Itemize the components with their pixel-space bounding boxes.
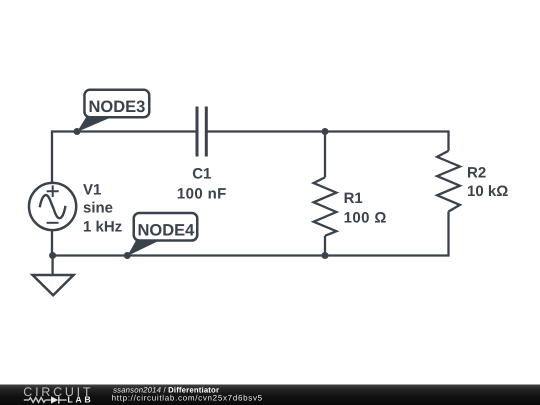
V1 plus sign bbox=[47, 185, 59, 197]
node NODE4 flag box bbox=[134, 213, 198, 241]
footer logo resistor zigzag bbox=[29, 398, 45, 403]
footer logo diode bbox=[51, 396, 58, 403]
svg-text:R2: R2 bbox=[467, 165, 486, 182]
node NODE4 flag tail bbox=[127, 241, 159, 257]
svg-text:100 Ω: 100 Ω bbox=[344, 209, 387, 226]
svg-text:NODE4: NODE4 bbox=[137, 222, 195, 240]
svg-text:100 nF: 100 nF bbox=[177, 185, 227, 202]
V1 sine waveform bbox=[40, 195, 66, 218]
footer bar bbox=[0, 385, 540, 405]
voltage source V1 circle bbox=[29, 183, 76, 230]
wire left vertical lower (V1 bottom lead) bbox=[51, 229, 53, 256]
svg-text:10 kΩ: 10 kΩ bbox=[467, 183, 508, 200]
junction dot R1 bottom bbox=[322, 252, 329, 259]
wire R1 top lead bbox=[324, 132, 326, 178]
footer logo wire bbox=[24, 399, 29, 401]
svg-text:LAB: LAB bbox=[67, 394, 93, 404]
junction dot ground bbox=[49, 252, 56, 259]
svg-text:sine: sine bbox=[83, 200, 113, 217]
resistor R2 zigzag bbox=[437, 151, 460, 212]
wire left vertical upper (V1 top lead) bbox=[51, 130, 53, 184]
svg-text:R1: R1 bbox=[344, 190, 363, 207]
svg-text:NODE3: NODE3 bbox=[88, 98, 145, 116]
svg-text:1 kHz: 1 kHz bbox=[83, 219, 122, 236]
capacitor C1 plates bbox=[197, 107, 206, 157]
node NODE3 flag tail bbox=[77, 117, 113, 133]
svg-text:C1: C1 bbox=[192, 166, 211, 183]
junction dot R1 top bbox=[322, 128, 329, 135]
resistor R1 zigzag bbox=[314, 177, 337, 235]
footer logo wire 3 bbox=[59, 399, 67, 401]
svg-text:http://circuitlab.com/cvn25x7d: http://circuitlab.com/cvn25x7d6bsv5 bbox=[112, 393, 263, 402]
wire R2 bottom lead bbox=[447, 212, 449, 257]
wire R2 top lead bbox=[447, 130, 449, 150]
junction dot node3 label attach bbox=[74, 128, 81, 135]
wire bottom rail (node4 net) bbox=[52, 254, 449, 256]
node NODE3 flag box bbox=[84, 90, 149, 118]
ground symbol bbox=[33, 275, 74, 295]
wire top rail right segment bbox=[206, 130, 448, 132]
V1 minus sign bbox=[47, 222, 59, 224]
wire R1 bottom lead bbox=[324, 236, 326, 256]
svg-text:V1: V1 bbox=[83, 182, 101, 199]
footer logo wire 2 bbox=[45, 399, 51, 401]
junction dot node4 label attach bbox=[124, 252, 131, 259]
wire top rail left segment (node3 net) bbox=[52, 130, 197, 132]
wire ground stem bbox=[51, 256, 53, 276]
